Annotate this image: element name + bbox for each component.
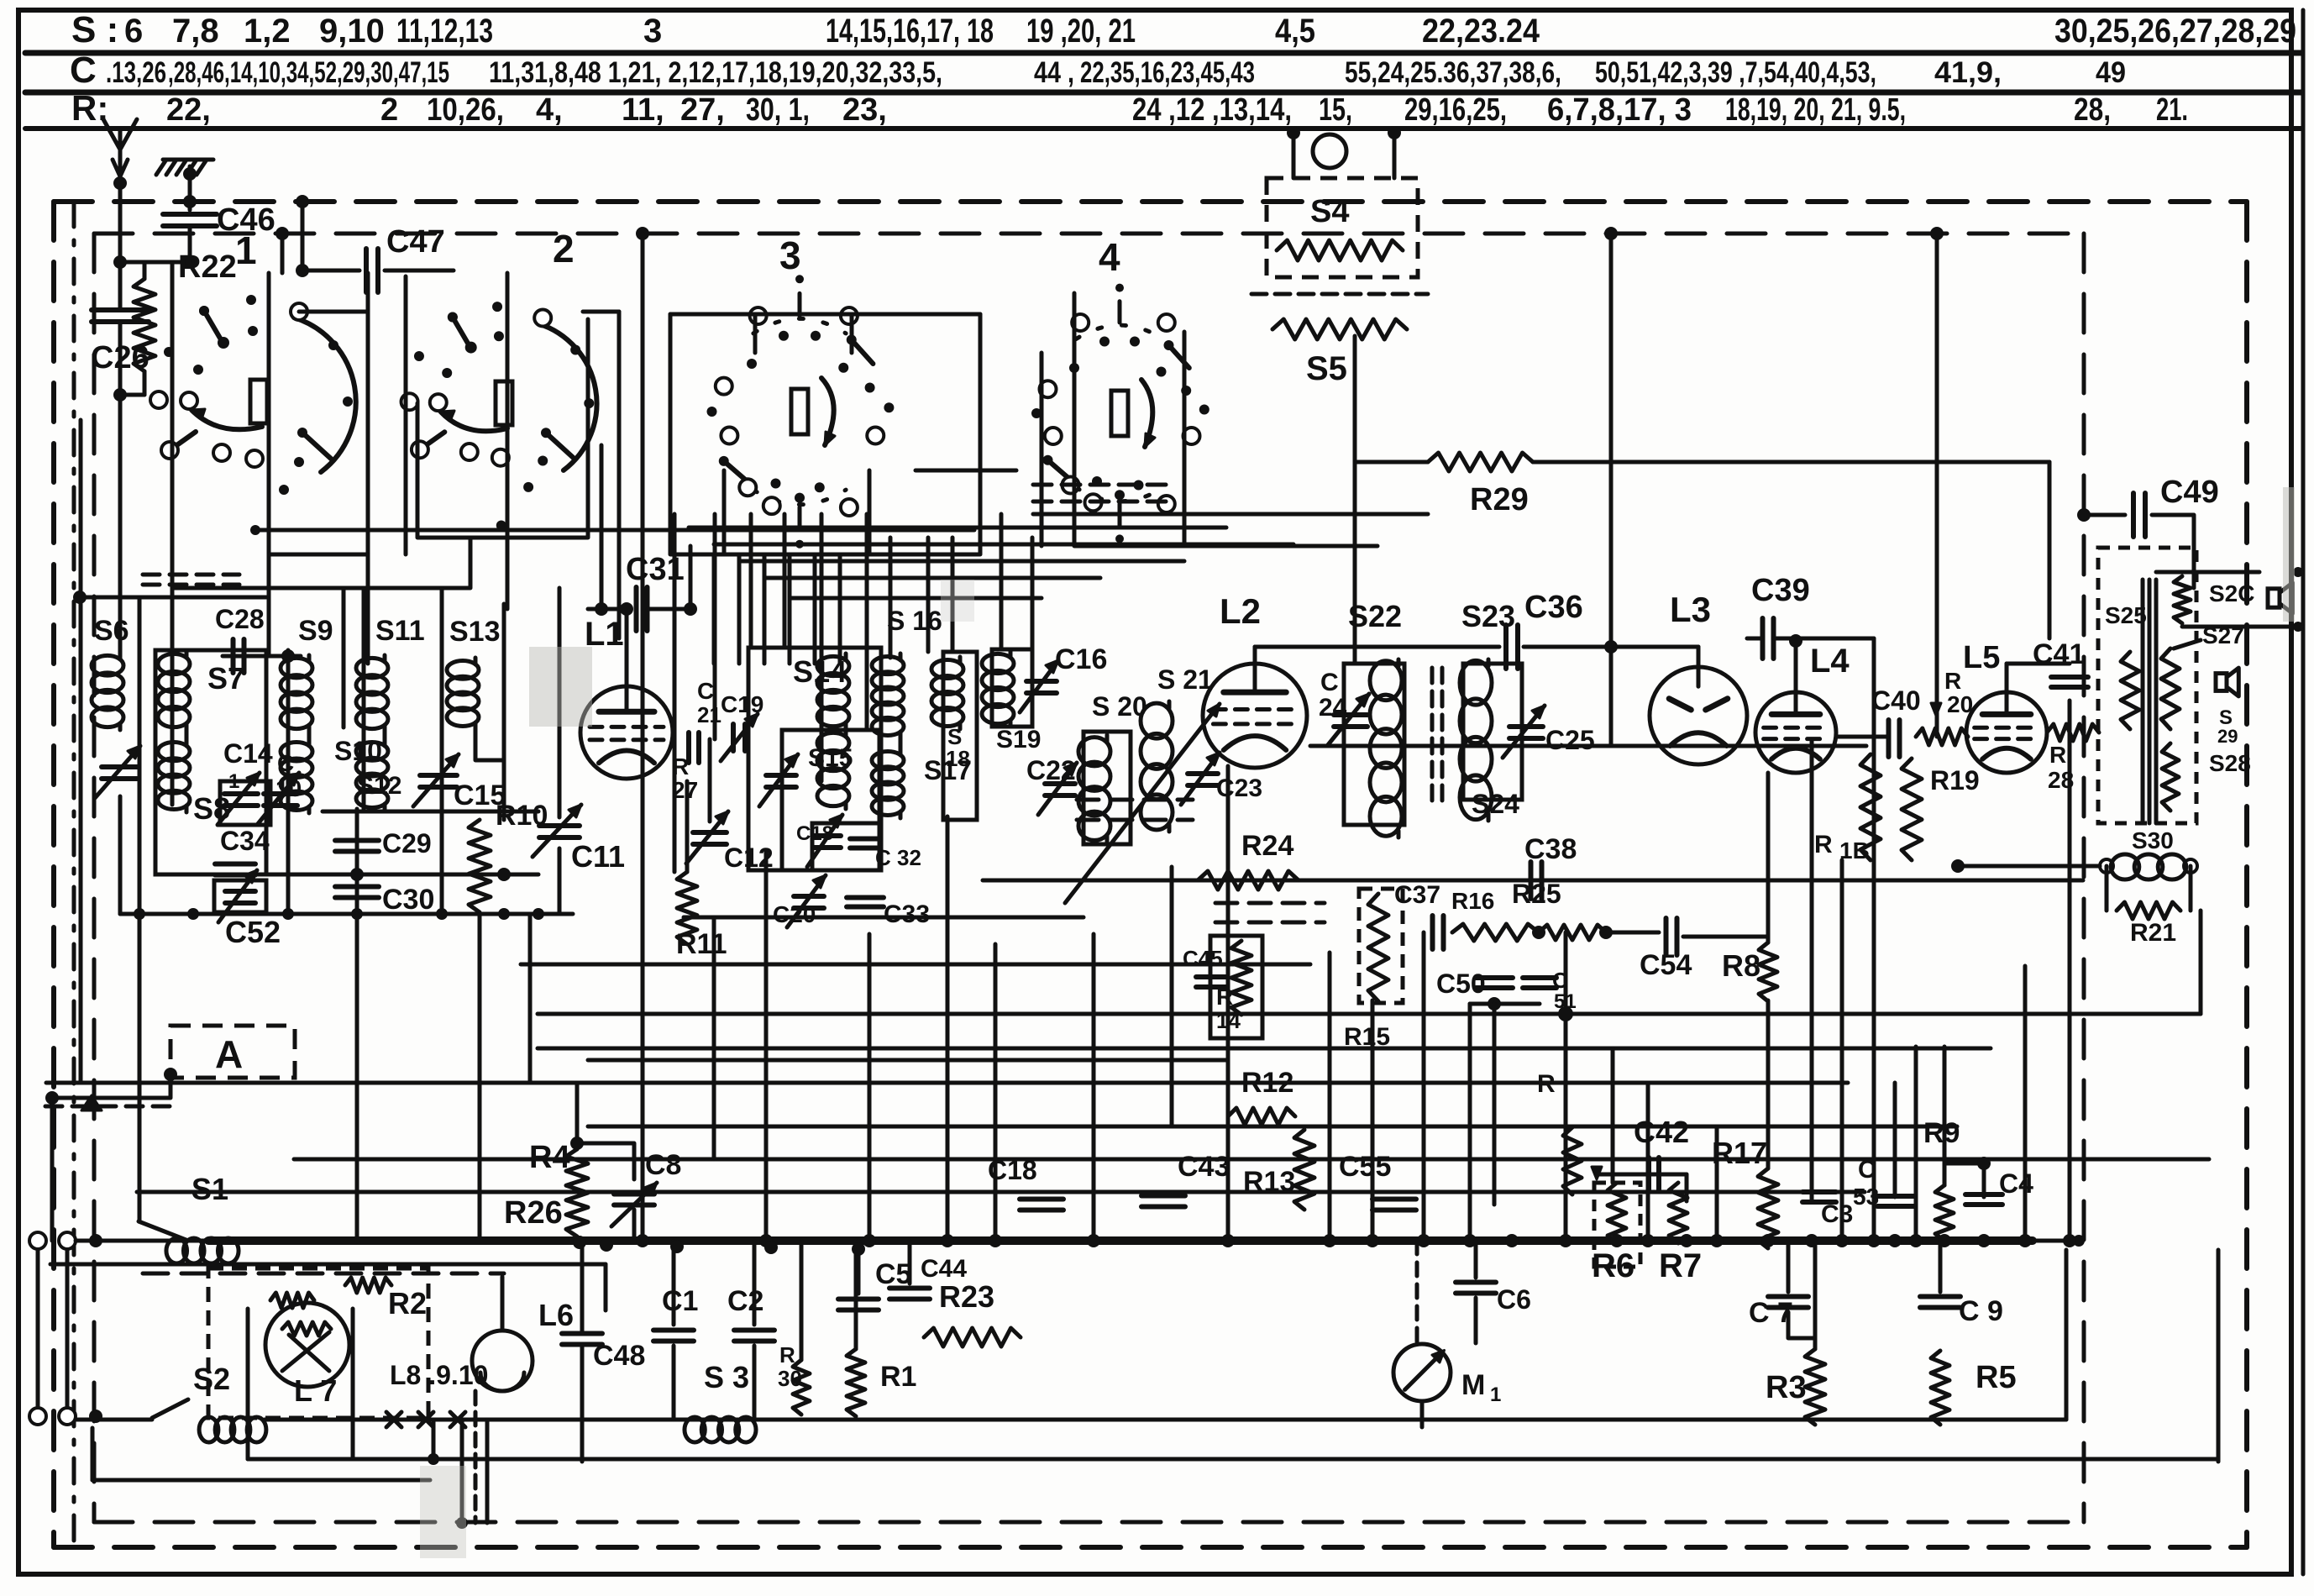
svg-text:21: 21 xyxy=(697,702,721,727)
svg-text:21.: 21. xyxy=(2156,92,2188,128)
svg-text:S13: S13 xyxy=(449,616,501,648)
svg-text:3: 3 xyxy=(779,234,801,277)
svg-text:L6: L6 xyxy=(538,1298,574,1332)
svg-text:R21: R21 xyxy=(2130,919,2176,947)
svg-text:.13,26: .13,26 xyxy=(106,56,166,89)
svg-text:4,: 4, xyxy=(536,92,563,128)
svg-text:C16: C16 xyxy=(1055,643,1107,675)
svg-text:C44: C44 xyxy=(921,1255,967,1283)
svg-text:C14: C14 xyxy=(223,738,273,769)
svg-text:R26: R26 xyxy=(504,1195,563,1231)
svg-text:C22: C22 xyxy=(1026,755,1076,785)
svg-text:20: 20 xyxy=(1947,691,1973,717)
svg-text:R11: R11 xyxy=(676,928,727,960)
svg-text:R16: R16 xyxy=(1451,888,1494,914)
svg-text:49: 49 xyxy=(2096,56,2126,89)
svg-text:11,31,8,48 1,21, 2,12,17,18,19: 11,31,8,48 1,21, 2,12,17,18,19,20,32,33,… xyxy=(489,56,942,89)
svg-text:L8 .9.10: L8 .9.10 xyxy=(390,1360,488,1390)
svg-text:C39: C39 xyxy=(1751,573,1810,608)
svg-text:C38: C38 xyxy=(1524,833,1577,865)
svg-text:29: 29 xyxy=(2217,726,2238,747)
svg-text:L 7: L 7 xyxy=(294,1373,337,1408)
svg-text:L5: L5 xyxy=(1963,640,2000,675)
svg-text:7,8: 7,8 xyxy=(172,13,219,50)
svg-text:M: M xyxy=(1461,1369,1485,1401)
svg-text:C 32: C 32 xyxy=(875,845,921,870)
svg-text:S4: S4 xyxy=(1310,194,1349,229)
svg-text:11,: 11, xyxy=(622,92,664,128)
svg-text:R17: R17 xyxy=(1712,1136,1767,1170)
svg-text:R3: R3 xyxy=(1766,1370,1807,1405)
svg-text:C18: C18 xyxy=(796,822,833,845)
svg-text:C: C xyxy=(1858,1156,1876,1184)
svg-text:S27: S27 xyxy=(2202,622,2244,648)
svg-text:S9: S9 xyxy=(298,615,333,647)
svg-text:C54: C54 xyxy=(1640,949,1692,981)
svg-text:10,26,: 10,26, xyxy=(427,92,504,128)
svg-text:R6: R6 xyxy=(1592,1247,1634,1284)
svg-text:41,9,: 41,9, xyxy=(1934,56,2002,89)
svg-text:55,24,25.36,37,38,6,: 55,24,25.36,37,38,6, xyxy=(1345,56,1561,89)
svg-text:14,15,16,17, 18: 14,15,16,17, 18 xyxy=(826,13,994,50)
svg-text:C19: C19 xyxy=(721,691,763,717)
svg-text:R7: R7 xyxy=(1659,1247,1702,1284)
svg-text:R: R xyxy=(1537,1070,1556,1098)
svg-text:C15: C15 xyxy=(454,780,506,811)
svg-text:R29: R29 xyxy=(1470,482,1529,517)
svg-text:30, 1,: 30, 1, xyxy=(746,92,810,128)
svg-text:1,2: 1,2 xyxy=(244,13,291,50)
svg-text:S23: S23 xyxy=(1461,599,1515,633)
svg-text:22,23.24: 22,23.24 xyxy=(1422,13,1540,50)
svg-text:28,: 28, xyxy=(2074,92,2111,128)
svg-text:C25: C25 xyxy=(1545,725,1595,755)
svg-text:R5: R5 xyxy=(1976,1360,2017,1395)
svg-text:C4: C4 xyxy=(1999,1168,2033,1199)
svg-text:R22: R22 xyxy=(178,249,237,285)
svg-text:A: A xyxy=(215,1032,243,1076)
svg-text:18,19, 20, 21, 9.5,: 18,19, 20, 21, 9.5, xyxy=(1725,92,1906,128)
svg-text:1: 1 xyxy=(1490,1383,1501,1406)
svg-text:4,5: 4,5 xyxy=(1275,13,1315,50)
svg-text:S8: S8 xyxy=(193,791,230,826)
svg-text:19 ,20, 21: 19 ,20, 21 xyxy=(1026,13,1136,50)
svg-text:S1: S1 xyxy=(192,1172,228,1206)
svg-text:R25: R25 xyxy=(1512,879,1561,909)
svg-text:S2: S2 xyxy=(193,1362,230,1396)
svg-text:R1: R1 xyxy=(880,1361,916,1393)
svg-text:S :: S : xyxy=(71,9,118,50)
svg-text:C5: C5 xyxy=(875,1258,911,1290)
svg-text:S5: S5 xyxy=(1306,350,1347,387)
svg-text:R: R xyxy=(1814,831,1833,858)
svg-text:24: 24 xyxy=(1319,694,1347,722)
svg-text:S15: S15 xyxy=(808,744,853,772)
svg-text:C28: C28 xyxy=(215,604,265,634)
svg-text:S7: S7 xyxy=(207,661,244,696)
svg-text:C: C xyxy=(697,678,714,704)
svg-text:C8: C8 xyxy=(645,1149,681,1181)
svg-text:23,: 23, xyxy=(842,92,887,128)
svg-text:C49: C49 xyxy=(2160,475,2219,510)
svg-text:C34: C34 xyxy=(220,826,270,856)
svg-text:S 3: S 3 xyxy=(704,1360,749,1394)
svg-text:C: C xyxy=(70,50,97,91)
svg-text:4: 4 xyxy=(1099,235,1120,279)
svg-text:C40: C40 xyxy=(1871,685,1921,716)
svg-text:C42: C42 xyxy=(1634,1115,1689,1149)
svg-text:C45: C45 xyxy=(1183,946,1223,971)
svg-text:C3: C3 xyxy=(1821,1200,1853,1228)
svg-text:L4: L4 xyxy=(1810,643,1850,680)
svg-text:2: 2 xyxy=(553,227,575,270)
svg-text:S19: S19 xyxy=(996,726,1041,753)
svg-text:C33: C33 xyxy=(884,900,930,928)
svg-text:R19: R19 xyxy=(1930,765,1980,795)
svg-text:C6: C6 xyxy=(1497,1284,1531,1315)
svg-text:C11: C11 xyxy=(571,839,625,874)
svg-text:C29: C29 xyxy=(382,828,432,858)
svg-text:29,16,25,: 29,16,25, xyxy=(1404,92,1507,128)
svg-text:22,35,16,23,45,43: 22,35,16,23,45,43 xyxy=(1080,56,1255,89)
svg-text:R: R xyxy=(779,1342,795,1368)
svg-text:6,7,8,17, 3: 6,7,8,17, 3 xyxy=(1547,92,1692,128)
svg-text:R24: R24 xyxy=(1241,830,1293,862)
svg-text:C48: C48 xyxy=(593,1340,645,1372)
svg-text:C30: C30 xyxy=(382,884,434,916)
svg-text:R2: R2 xyxy=(388,1286,427,1320)
svg-text:R23: R23 xyxy=(939,1279,994,1314)
svg-text:S2C: S2C xyxy=(2209,580,2254,606)
svg-text:C52: C52 xyxy=(225,915,281,949)
svg-text:9,10: 9,10 xyxy=(319,13,385,50)
svg-text:R8: R8 xyxy=(1722,948,1760,983)
svg-text:C1: C1 xyxy=(662,1285,698,1317)
svg-text:2: 2 xyxy=(380,92,398,128)
svg-text:L3: L3 xyxy=(1670,590,1711,629)
svg-text:R: R xyxy=(2049,742,2066,768)
svg-text:S 21: S 21 xyxy=(1157,664,1213,695)
svg-text:S11: S11 xyxy=(375,615,425,647)
svg-text:C20: C20 xyxy=(773,901,816,927)
svg-text:R: R xyxy=(1944,668,1961,694)
svg-text:C18: C18 xyxy=(988,1155,1037,1185)
svg-text:R4: R4 xyxy=(529,1140,570,1175)
svg-text:S28: S28 xyxy=(2209,750,2251,776)
svg-text:11,12,13: 11,12,13 xyxy=(396,13,493,50)
svg-text:6: 6 xyxy=(124,13,143,50)
svg-text:S24: S24 xyxy=(1472,789,1519,819)
svg-text:S25: S25 xyxy=(2105,602,2147,628)
svg-text:C50: C50 xyxy=(1436,969,1486,999)
svg-text:S30: S30 xyxy=(2132,827,2174,853)
svg-text:S22: S22 xyxy=(1348,599,1402,633)
svg-text:3: 3 xyxy=(643,13,662,50)
svg-text:C47: C47 xyxy=(386,224,445,260)
svg-text:S 16: S 16 xyxy=(887,606,942,636)
svg-text:27,: 27, xyxy=(680,92,725,128)
svg-text:C43: C43 xyxy=(1178,1151,1230,1183)
svg-text:1: 1 xyxy=(235,228,257,272)
svg-text:C55: C55 xyxy=(1339,1151,1391,1183)
svg-text:24 ,12 ,13,14,: 24 ,12 ,13,14, xyxy=(1132,92,1292,128)
svg-text:18: 18 xyxy=(946,746,970,771)
svg-text:30: 30 xyxy=(778,1366,802,1391)
svg-text:30,25,26,27,28,29: 30,25,26,27,28,29 xyxy=(2054,13,2296,50)
svg-text:R9: R9 xyxy=(1923,1117,1960,1149)
svg-text:S6: S6 xyxy=(94,615,129,647)
svg-text:50,51,42,3,39 ,7,54,40,4,53,: 50,51,42,3,39 ,7,54,40,4,53, xyxy=(1595,56,1876,89)
svg-text:R12: R12 xyxy=(1241,1067,1293,1099)
svg-text:C2: C2 xyxy=(727,1285,763,1317)
svg-text:,28,46,14,10,34,52,29,30,47,15: ,28,46,14,10,34,52,29,30,47,15 xyxy=(168,56,449,89)
svg-text:L2: L2 xyxy=(1220,591,1261,631)
svg-text:C23: C23 xyxy=(1216,774,1262,802)
svg-text:R13: R13 xyxy=(1243,1166,1295,1198)
svg-text:44 ,: 44 , xyxy=(1034,56,1074,89)
svg-text:C 9: C 9 xyxy=(1959,1295,2003,1327)
svg-text:15,: 15, xyxy=(1319,92,1352,128)
svg-text:C: C xyxy=(1320,669,1339,696)
svg-text:C36: C36 xyxy=(1524,590,1583,625)
svg-text:22,: 22, xyxy=(166,92,211,128)
